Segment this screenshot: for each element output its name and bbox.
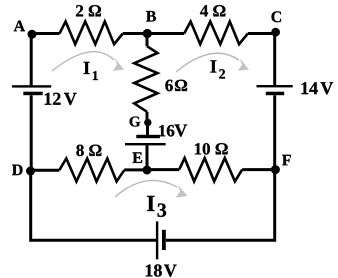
wire node F down and along bottom to battery 18V (166, 170, 275, 241)
current arrow I1 head (113, 58, 124, 71)
value label 6 ohm (165, 80, 172, 92)
battery V2 14V short plate (266, 92, 284, 96)
node label B (146, 11, 156, 22)
resistor R3 6-ohm vertical zigzag (134, 46, 157, 112)
value label 10 ohm (195, 143, 228, 155)
current arrow I3 head (176, 184, 188, 197)
wire node D to 8-ohm resistor (31, 169, 60, 172)
wire node G to battery 16V (146, 123, 149, 136)
wire battery 12V down to node D (30, 95, 33, 170)
battery V1 12V long plate (12, 85, 51, 87)
current label I3 (147, 196, 154, 211)
value label 16 V (159, 125, 174, 137)
node label A (14, 21, 25, 32)
wire node B down to 6-ohm resistor (146, 34, 149, 47)
current arrow I3 arc (115, 180, 177, 197)
node label E (133, 152, 143, 163)
resistor R4 8-ohm zigzag (59, 159, 124, 182)
wire node B to 4-ohm resistor (147, 32, 184, 35)
node C junction dot (271, 28, 280, 37)
current label I1 (84, 62, 90, 74)
wire 8-ohm resistor to node E (124, 168, 147, 171)
value label 12 V (45, 93, 61, 105)
current label I2 (210, 60, 216, 72)
wire 2-ohm resistor to node B (123, 32, 147, 35)
wire battery 16V down to node E (146, 145, 149, 170)
node label G (130, 117, 141, 127)
resistor R1 2-ohm zigzag (60, 22, 123, 45)
node A junction dot (28, 30, 37, 39)
battery V2 14V long plate (257, 85, 293, 87)
current arrow I2 head (238, 58, 249, 71)
wire node D down and along bottom to battery 18V (31, 171, 156, 241)
value label 2 ohm (76, 5, 101, 16)
wire node A down to battery 12V (30, 34, 33, 86)
wire 6-ohm resistor to node G (146, 112, 149, 123)
node label D (12, 165, 23, 176)
wire node A to 2-ohm resistor (32, 32, 60, 35)
resistor R5 10-ohm zigzag (179, 158, 242, 181)
resistor R2 4-ohm zigzag (184, 22, 248, 45)
battery V3 16V short plate (136, 135, 160, 138)
node F junction dot (271, 165, 280, 174)
battery V3 16V long plate (125, 143, 166, 145)
battery V4 18V short plate (162, 230, 166, 250)
node label C (272, 11, 282, 22)
node G junction dot (144, 119, 151, 126)
value label 14 V (302, 82, 318, 94)
wire node E to 10-ohm resistor (147, 168, 179, 171)
node label F (282, 155, 291, 166)
battery V4 18V long plate (156, 221, 158, 259)
battery V1 12V short plate (23, 92, 42, 96)
wire node C down to battery 14V (273, 34, 276, 86)
node B junction dot (143, 29, 152, 38)
value label 18 V (146, 264, 162, 276)
current arrow I2 arc (176, 53, 239, 72)
node E junction dot (143, 166, 152, 175)
wire battery 14V down to node F (273, 95, 276, 169)
wire 10-ohm resistor to node F (242, 168, 275, 171)
node D junction dot (26, 167, 35, 176)
value label 4 ohm (200, 5, 225, 16)
value label 8 ohm (76, 145, 101, 157)
wire 4-ohm resistor to node C (248, 32, 275, 35)
current arrow I1 arc (52, 52, 114, 71)
